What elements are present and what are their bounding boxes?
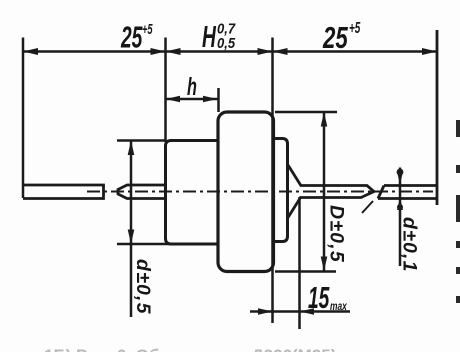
svg-text:d±0,1: d±0,1 — [399, 217, 421, 273]
wire segment: left lead outer piece — [23, 185, 104, 199]
svg-text:h: h — [187, 74, 197, 101]
component: small cylinder (length h, dia d) — [166, 141, 218, 245]
D dimension line — [323, 112, 326, 271]
arrow h left — [166, 96, 181, 103]
arrow d-right top (with tail dot) — [397, 172, 403, 185]
svg-text:H: H — [202, 21, 217, 55]
right edge text fragments — [456, 120, 460, 303]
extension line left x23 — [22, 38, 25, 199]
arrow 25-right at x437 — [422, 48, 437, 55]
d left top extension line — [117, 139, 165, 142]
extension line x217.5 top — [217, 88, 220, 112]
extension line x165.5 (cylinder left face) — [164, 38, 167, 143]
wire segment: left lead inner piece with pointed break end — [118, 185, 165, 199]
svg-text:0,5: 0,5 — [217, 35, 235, 51]
D top extension — [275, 111, 337, 114]
arrow d-left bottom — [128, 230, 135, 245]
arrow 15max right — [300, 308, 315, 315]
arrow d-left top — [128, 141, 135, 156]
arrow D top — [321, 112, 328, 127]
arrow 25-right left end — [273, 48, 288, 55]
svg-text:d±0,5: d±0,5 — [132, 259, 154, 315]
d left dimension line — [130, 141, 133, 318]
arrow h right — [203, 96, 218, 103]
svg-text:15: 15 — [308, 282, 330, 316]
h dimension line — [166, 98, 218, 101]
arrow H right end — [258, 48, 273, 55]
extension line x272.5 (body right face) — [271, 38, 274, 324]
top dimension line 25 / H / 25 — [23, 50, 437, 53]
svg-text:1Б) Рис. 6. Обозначение Д226: 1Б) Рис. 6. Обозначение Д226(М25) и разм… — [44, 346, 460, 352]
extension line right x437 — [436, 30, 439, 205]
arrow 25-left at x23 — [23, 48, 38, 55]
arrow D bottom — [321, 257, 328, 272]
arrow H left end — [166, 48, 181, 55]
svg-text:max: max — [330, 301, 348, 314]
bottom cut-off caption fragments — [44, 346, 460, 352]
svg-text:0,7: 0,7 — [217, 21, 236, 37]
component: cone taper to lead — [288, 165, 301, 218]
extension line x299.5 (cone tip) — [298, 197, 301, 329]
arrow d-right bottom (with tail dot) — [397, 198, 403, 210]
svg-text:25: 25 — [120, 21, 143, 55]
component: main body (length H, dia D) — [218, 112, 274, 272]
d right (d±0.1) dimension line — [399, 168, 402, 267]
arrow 15max left — [258, 308, 273, 315]
wire break mark (diagonal) — [362, 201, 373, 213]
D bottom extension — [275, 270, 336, 273]
d left bottom extension line — [117, 243, 218, 246]
arrow 25-left right end — [151, 48, 166, 55]
svg-text:+5: +5 — [349, 19, 361, 37]
wire segment: right lead inner piece with pointed tip — [300, 186, 374, 198]
svg-text:D±0,5: D±0,5 — [326, 205, 348, 263]
centerline (axis dash-dot) — [87, 191, 433, 193]
svg-text:25: 25 — [322, 20, 348, 54]
svg-text:+5: +5 — [142, 21, 153, 38]
15max dimension line — [250, 310, 350, 313]
component: flange disc — [275, 139, 288, 242]
wire segment: right lead outer piece with slanted break — [378, 186, 436, 199]
